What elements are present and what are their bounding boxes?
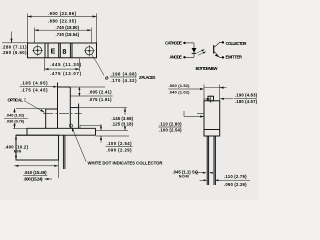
svg-text:.180 (4.57): .180 (4.57) xyxy=(235,99,258,104)
wire cathode stub xyxy=(186,42,194,44)
bottom dim .610 xyxy=(58,161,60,179)
extension line x94.5 xyxy=(90,28,92,44)
lead (front view) xyxy=(62,135,64,169)
svg-text:.040 (1.02): .040 (1.02) xyxy=(169,89,191,94)
extension line left of flange xyxy=(2,42,28,44)
leader to centerline xyxy=(27,102,45,112)
svg-text:MIN: MIN xyxy=(14,149,22,153)
vertical arrows between xyxy=(78,87,80,96)
emitter arrowhead xyxy=(215,54,219,57)
svg-text:.880 (22.35): .880 (22.35) xyxy=(48,18,77,23)
svg-text:Ø: Ø xyxy=(105,76,109,81)
flange left end xyxy=(26,128,28,135)
down arrow xyxy=(11,32,13,43)
dim line .900 xyxy=(28,16,97,18)
svg-text:COLLECTOR: COLLECTOR xyxy=(226,41,247,46)
extension line x41.5 xyxy=(34,28,36,44)
chimney right edge xyxy=(69,87,71,128)
svg-text:.730 (18.54): .730 (18.54) xyxy=(56,32,80,37)
lead left xyxy=(206,136,208,185)
terminal dot anode xyxy=(183,56,185,58)
chimney dim second level xyxy=(204,98,211,100)
divider pair left xyxy=(44,43,46,58)
optical centerline (horizontal) xyxy=(43,113,82,115)
emission arrow 1 xyxy=(197,50,204,53)
divider pair right xyxy=(69,43,71,58)
svg-text:.190 (4.83): .190 (4.83) xyxy=(235,92,258,97)
flange bottom edge xyxy=(16,134,96,136)
emission arrow 2 xyxy=(198,52,205,55)
svg-text:.196 (4.98): .196 (4.98) xyxy=(111,72,138,77)
lead right xyxy=(213,136,215,185)
chimney (side profile) xyxy=(208,96,214,101)
svg-text:.145 (3.68): .145 (3.68) xyxy=(112,116,134,121)
flange top edge xyxy=(27,127,96,129)
wire anode stub xyxy=(186,56,194,58)
left dim of side view xyxy=(183,111,185,117)
svg-text:.060 (1.52): .060 (1.52) xyxy=(169,83,191,88)
divider pair mid xyxy=(58,43,60,58)
terminal dot emitter xyxy=(222,56,224,58)
tower left edge xyxy=(45,109,47,128)
svg-text:OPTICAL: OPTICAL xyxy=(8,97,24,102)
dim line .445 xyxy=(45,68,80,70)
svg-text:.170 (4.32): .170 (4.32) xyxy=(111,78,138,83)
svg-text:.260 (6.60): .260 (6.60) xyxy=(2,50,28,55)
emitter lead xyxy=(214,52,222,58)
chimney left edge xyxy=(57,83,59,129)
bracket above flange right portion xyxy=(80,124,101,126)
svg-text:.195 (4.95): .195 (4.95) xyxy=(21,81,49,86)
flange edges extension right xyxy=(96,129,129,131)
lead spacing dim xyxy=(200,179,207,181)
extension line right x96.5 xyxy=(96,14,98,44)
svg-text:EMITTER: EMITTER xyxy=(226,55,243,60)
wire LED vertical xyxy=(193,43,195,57)
ext lines above body xyxy=(203,85,205,101)
dim line .740 xyxy=(35,29,92,31)
svg-text:NOM: NOM xyxy=(179,174,189,178)
svg-text:.600 (15.24): .600 (15.24) xyxy=(24,176,44,181)
extension line x44.5 xyxy=(44,59,46,72)
svg-text:BOTTOM VIEW: BOTTOM VIEW xyxy=(196,66,218,71)
svg-text:.110 (2.80): .110 (2.80) xyxy=(159,121,182,126)
centerline into side view xyxy=(197,113,204,115)
chimney top xyxy=(58,86,71,88)
svg-text:.100 (2.54): .100 (2.54) xyxy=(107,141,133,146)
terminal dot collector xyxy=(222,41,224,43)
LED cathode bar xyxy=(192,52,197,54)
svg-text:.090 (2.29): .090 (2.29) xyxy=(224,182,247,187)
body height dim arrows on body left edge xyxy=(15,135,17,139)
tower right step top xyxy=(70,107,78,109)
side body outline xyxy=(204,101,220,136)
step top extension right of tower xyxy=(79,107,127,109)
flange right end xyxy=(95,128,97,135)
leader to right text xyxy=(220,98,233,100)
extension line left x27.5 xyxy=(27,14,29,44)
svg-text:.610 (15.49): .610 (15.49) xyxy=(24,170,47,175)
LED D1 triangle xyxy=(192,48,197,53)
svg-text:WHITE DOT INDICATES COLLECTOR: WHITE DOT INDICATES COLLECTOR xyxy=(88,160,163,165)
tower step top left xyxy=(46,108,58,110)
flange thickness dim vertical x101 xyxy=(100,124,102,130)
chimney top extension right xyxy=(70,86,105,88)
step top extension left xyxy=(16,107,46,109)
svg-text:CATHODE: CATHODE xyxy=(165,40,182,45)
extension line x79.4 xyxy=(78,59,80,72)
svg-text:.030 (0.76): .030 (0.76) xyxy=(6,120,25,124)
flange top ext to left xyxy=(13,127,27,129)
svg-text:2 PLACES: 2 PLACES xyxy=(139,75,156,80)
top dim line xyxy=(204,87,220,89)
svg-text:E: E xyxy=(51,49,56,56)
mounting hole right xyxy=(85,47,93,55)
left step dim vertical xyxy=(14,108,16,113)
svg-text:.125 (3.18): .125 (3.18) xyxy=(112,121,134,126)
svg-text:ANODE: ANODE xyxy=(169,55,182,60)
white dot on flange xyxy=(70,124,73,127)
svg-text:.175 (4.45): .175 (4.45) xyxy=(21,88,49,93)
mounting hole left xyxy=(34,46,42,54)
leader from white dot xyxy=(72,127,86,161)
svg-text:.110 (2.79): .110 (2.79) xyxy=(224,174,247,179)
svg-text:.090 (2.29): .090 (2.29) xyxy=(107,147,133,152)
svg-text:.475 (12.07): .475 (12.07) xyxy=(50,71,82,76)
terminal dot cathode xyxy=(183,42,185,44)
svg-text:.740 (18.80): .740 (18.80) xyxy=(56,25,80,30)
tower right edge xyxy=(78,104,80,129)
arrow right of .600 xyxy=(45,178,53,180)
second extension right xyxy=(70,95,112,97)
svg-text:.095 (2.41): .095 (2.41) xyxy=(89,90,113,95)
collector lead xyxy=(214,42,222,47)
svg-text:8: 8 xyxy=(62,47,66,56)
svg-text:.280 (7.11): .280 (7.11) xyxy=(2,45,28,50)
leader from right hole xyxy=(92,55,104,76)
svg-text:.075 (1.91): .075 (1.91) xyxy=(89,97,113,102)
body below flange xyxy=(16,135,59,160)
top view body outline xyxy=(28,43,97,58)
step height dim vertical x125 xyxy=(124,108,126,115)
svg-text:.445 (11.30): .445 (11.30) xyxy=(50,62,82,67)
svg-text:.900 (22.86): .900 (22.86) xyxy=(48,11,77,16)
svg-text:.100 (2.54): .100 (2.54) xyxy=(159,127,182,132)
svg-text:.040 (1.02): .040 (1.02) xyxy=(6,114,25,118)
phototransistor Q1 base bar xyxy=(213,45,215,54)
base line xyxy=(204,129,220,131)
